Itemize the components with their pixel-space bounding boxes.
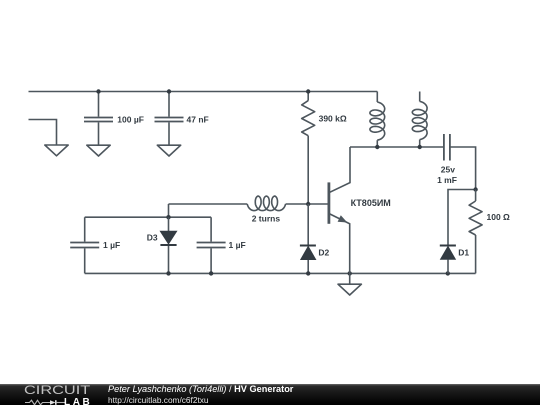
svg-text:D2: D2 (318, 247, 329, 257)
svg-text:КТ805ИМ: КТ805ИМ (351, 198, 391, 208)
ground under 100uF (87, 145, 110, 156)
wire cap-network drop (168, 204, 170, 217)
node dot cap-net top (166, 215, 170, 219)
wire D1 branch top (448, 190, 476, 245)
footer url (108, 395, 209, 405)
node dot R2 top (473, 187, 477, 191)
diode D2 (300, 204, 330, 273)
svg-text:1 µF: 1 µF (229, 240, 246, 250)
ground left (45, 145, 68, 156)
svg-text:1 mF: 1 mF (437, 175, 457, 185)
diode D3 (147, 217, 177, 273)
capacitor 1mF 25v (437, 134, 457, 185)
svg-text:1 µF: 1 µF (103, 240, 120, 250)
wire top rail (29, 91, 378, 93)
transformer secondary winding (412, 92, 427, 148)
svg-text:D1: D1 (458, 247, 469, 257)
ground under 47nF (157, 145, 180, 156)
svg-text:100 µF: 100 µF (117, 114, 144, 124)
node dot primary bottom (375, 145, 379, 149)
capacitor 100uF (84, 92, 144, 146)
ground under emitter (338, 273, 361, 295)
footer title text (108, 384, 293, 394)
node dot secondary bottom (418, 145, 422, 149)
node dot base junction (306, 202, 310, 206)
CircuitLab logo (23, 385, 98, 405)
resistor 100 ohm (469, 190, 510, 274)
svg-text:390 kΩ: 390 kΩ (319, 114, 347, 124)
transformer primary winding (370, 92, 385, 148)
wire bottom rail (85, 272, 476, 274)
capacitor 47nF (155, 92, 209, 146)
diode D1 (440, 246, 470, 274)
wire left supply stub (29, 120, 57, 146)
node dot 390k top (306, 89, 310, 93)
node dot 100uF top (96, 89, 100, 93)
inductor 2 turns (169, 196, 328, 223)
svg-text:100 Ω: 100 Ω (487, 212, 511, 222)
capacitor 1uF right (197, 217, 246, 273)
wire cap to resistor (450, 147, 476, 190)
transistor Q1 KT805IM (329, 147, 391, 273)
node dot 47nF top (167, 89, 171, 93)
resistor 390k (302, 92, 347, 205)
svg-text:2 turns: 2 turns (252, 214, 281, 224)
svg-text:D3: D3 (147, 233, 158, 243)
node dots bottom rail (166, 271, 450, 275)
capacitor 1uF left (70, 217, 120, 273)
svg-text:25v: 25v (441, 165, 455, 175)
wire collector rail (350, 146, 444, 148)
wire cap-network top rail (85, 216, 211, 218)
svg-text:47 nF: 47 nF (187, 114, 209, 124)
